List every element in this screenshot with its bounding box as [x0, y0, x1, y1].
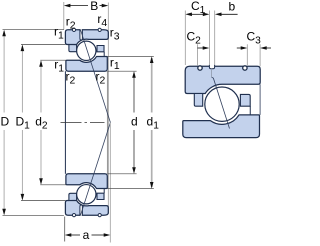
svg-text:r1: r1: [110, 55, 120, 72]
svg-text:B: B: [90, 0, 98, 13]
svg-text:d2: d2: [35, 115, 48, 132]
svg-text:r3: r3: [110, 25, 120, 42]
svg-text:D1: D1: [16, 115, 31, 132]
svg-text:D: D: [1, 115, 10, 129]
svg-text:r2: r2: [66, 15, 76, 32]
svg-text:r4: r4: [97, 12, 107, 29]
svg-text:C3: C3: [247, 30, 262, 47]
svg-text:d: d: [131, 115, 138, 129]
svg-text:b: b: [229, 0, 236, 14]
svg-text:d1: d1: [147, 115, 160, 132]
svg-text:a: a: [83, 228, 90, 242]
svg-text:r1: r1: [54, 24, 64, 41]
svg-text:r2: r2: [66, 70, 76, 87]
svg-text:r2: r2: [96, 69, 106, 86]
svg-text:C2: C2: [187, 30, 202, 47]
